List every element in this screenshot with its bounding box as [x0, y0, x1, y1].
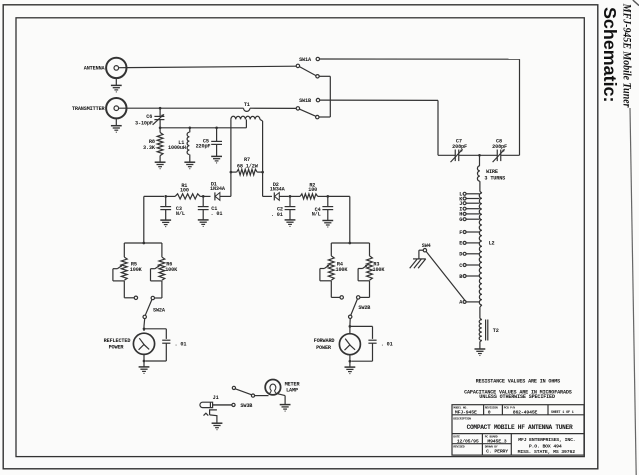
label R1 value — [180, 183, 189, 193]
svg-text:SW2B: SW2B — [358, 305, 370, 311]
switch SW1A top throw contact — [316, 57, 319, 60]
svg-text:REVISION: REVISION — [485, 406, 498, 409]
switch SW2A pivot — [143, 315, 146, 318]
node reflected meter top — [143, 327, 146, 330]
capacitor C7 variable — [451, 149, 464, 162]
transformer T1 primary dip — [244, 108, 250, 111]
svg-text:3-10pF: 3-10pF — [135, 120, 153, 126]
svg-text:100K: 100K — [336, 267, 349, 273]
meter M FORWARD POWER — [339, 334, 360, 355]
switch SW3B jack contact — [232, 403, 235, 406]
label C6 value — [135, 114, 153, 126]
wire box to R6 — [161, 243, 163, 257]
svg-text:MISS. STATE, MS 39762: MISS. STATE, MS 39762 — [518, 449, 576, 455]
switch SW2B right contact — [357, 296, 360, 299]
title block header DESCRIPTION — [453, 417, 471, 420]
potentiometer R5 — [113, 257, 127, 281]
svg-text:M945E_3: M945E_3 — [487, 439, 506, 445]
ground under forward meter — [345, 367, 356, 374]
connector J1 sleeve lead — [204, 410, 217, 423]
label R8 value — [143, 139, 156, 151]
svg-text:100: 100 — [308, 187, 317, 193]
resistor R8 — [157, 128, 163, 162]
wire reflected cap bottom to meter — [146, 360, 167, 362]
title block value revision 0 — [488, 409, 491, 415]
wire SW1B throw to C7 side — [320, 100, 438, 155]
label J1 — [213, 395, 219, 401]
wire C8 to antenna switch line — [501, 59, 520, 155]
svg-text:UNLESS OTHERWISE SPECIFIED: UNLESS OTHERWISE SPECIFIED — [479, 394, 555, 400]
wire T1 primary to SW1B common — [250, 107, 296, 109]
wire forward meter to ground — [349, 355, 351, 367]
svg-text:FORWARD: FORWARD — [314, 338, 335, 344]
node C3 tap — [164, 195, 167, 198]
svg-text:L2: L2 — [489, 241, 495, 247]
sidebar heading Schematic: — [600, 7, 620, 102]
switch SW3B common contact — [251, 394, 254, 397]
capacitor C6 variable — [153, 108, 165, 128]
label C3 value — [176, 206, 185, 217]
svg-text:T1: T1 — [244, 102, 250, 108]
svg-text:SW3B: SW3B — [240, 403, 252, 409]
resistor R2 — [300, 194, 318, 199]
svg-text:68 1/2W: 68 1/2W — [237, 163, 259, 169]
svg-text:T2: T2 — [493, 328, 499, 334]
svg-text:0: 0 — [488, 409, 491, 415]
wire R5 to SW2A left contact — [124, 281, 134, 298]
svg-text:SW2A: SW2A — [153, 307, 166, 313]
svg-text:REVISED: REVISED — [453, 445, 465, 448]
wire C3 to R1 — [166, 195, 175, 197]
label SW1A — [299, 57, 312, 63]
svg-text:C. PERRY: C. PERRY — [486, 449, 508, 455]
label FORWARD POWER — [314, 338, 335, 351]
label R7 value — [237, 157, 259, 169]
note capacitance values — [464, 389, 572, 400]
title block header REVISED — [453, 445, 465, 448]
svg-text:N/L: N/L — [312, 212, 321, 218]
svg-text:F: F — [459, 230, 462, 236]
svg-text:POWER: POWER — [316, 345, 332, 351]
potentiometer R4 — [320, 256, 334, 281]
ground under C5 — [211, 156, 222, 163]
wire box to R5 — [123, 243, 125, 257]
capacitor C4 — [322, 196, 333, 220]
label reflected meter cap value — [175, 341, 187, 347]
connector J ANTENNA — [84, 58, 127, 78]
wire C7 to C8 — [459, 154, 497, 156]
svg-text:100K: 100K — [165, 267, 178, 273]
lamp METER LAMP — [265, 380, 280, 395]
switch SW1A throw to crossover — [316, 75, 319, 78]
capacitor C5 — [211, 128, 222, 156]
note resistance values — [476, 378, 560, 384]
svg-text:862-4945E: 862-4945E — [513, 409, 538, 415]
wire R1 to C1 node — [200, 195, 202, 197]
svg-text:DESCRIPTION: DESCRIPTION — [453, 417, 471, 420]
svg-text:POWER: POWER — [109, 345, 125, 351]
resistor R1 — [175, 194, 200, 199]
meter M REFLECTED POWER — [133, 333, 154, 354]
svg-text:C6: C6 — [146, 114, 152, 120]
title block header PCB P/N — [504, 405, 516, 409]
title block value MFJ-945E — [455, 409, 477, 415]
node forward meter bottom — [349, 360, 352, 363]
switch SW1B arm — [299, 109, 316, 116]
switch SW2B left contact — [340, 296, 343, 299]
wire R2 to C4 node — [318, 195, 327, 197]
transformer T2 core — [486, 320, 488, 341]
svg-text:Schematic:: Schematic: — [600, 7, 620, 102]
ground under C1 — [198, 220, 209, 227]
label L1 value — [168, 140, 186, 151]
wire to forward meter cap — [350, 326, 373, 339]
switch SW4 arm to tap A — [426, 251, 466, 301]
ground under C2 — [285, 220, 296, 227]
svg-text:PC BOARD: PC BOARD — [485, 435, 498, 438]
label SW2B — [358, 305, 370, 311]
potentiometer R6 — [151, 257, 165, 281]
svg-text:COMPACT MOBILE HF ANTENNA TUNE: COMPACT MOBILE HF ANTENNA TUNER — [467, 424, 573, 431]
title block description text — [467, 424, 573, 431]
svg-text:3.3K: 3.3K — [143, 145, 156, 151]
ground under C4 — [322, 221, 333, 228]
title block value M945E_3 — [487, 439, 506, 445]
label C2 value — [271, 207, 283, 218]
title block table — [452, 405, 584, 455]
svg-text:REFLECTED: REFLECTED — [104, 338, 131, 344]
switch SW1A arm — [299, 67, 316, 76]
capacitor .01 across forward meter — [368, 340, 376, 361]
svg-text:SHEET 1 OF 1: SHEET 1 OF 1 — [551, 411, 574, 415]
capacitor C1 — [198, 196, 209, 219]
svg-text:ANTENNA: ANTENNA — [84, 66, 106, 72]
svg-text:. 01: . 01 — [381, 342, 393, 348]
wire box to R4 — [330, 243, 332, 256]
label C1 value — [211, 206, 223, 217]
ground under T2 — [475, 349, 486, 356]
svg-text:. 01: . 01 — [271, 212, 283, 218]
switch SW4 pivot — [422, 243, 431, 252]
node forward meter top — [349, 325, 352, 328]
node R8 top — [159, 126, 162, 129]
wire bridge row left corner — [144, 195, 164, 197]
svg-text:100K: 100K — [130, 267, 143, 273]
node reflected meter bottom — [143, 360, 146, 363]
switch SW3B open throw contact — [232, 386, 235, 389]
title block header DRAWN BY — [485, 445, 498, 448]
svg-text:1000uH: 1000uH — [168, 145, 186, 151]
label C4 value — [312, 207, 321, 218]
transformer T2 winding — [479, 318, 482, 341]
label R5 value — [130, 261, 143, 273]
svg-text:1N34A: 1N34A — [270, 187, 286, 193]
node C2 tap — [289, 195, 292, 198]
wire meter lamp to ground — [278, 394, 285, 405]
svg-text:B: B — [459, 274, 462, 280]
node C6 tap on transmitter line — [159, 107, 162, 110]
wire R3 to SW2B right contact — [360, 281, 370, 298]
svg-text:208pF: 208pF — [492, 144, 507, 150]
wire transmitter to T1 primary — [119, 107, 244, 109]
svg-text:DRAWN BY: DRAWN BY — [485, 445, 498, 448]
ground under L1 — [184, 162, 195, 169]
wire SW2A to reflected meter — [143, 319, 146, 331]
switch SW2A arm — [145, 300, 152, 316]
svg-text:PCB P/N: PCB P/N — [504, 405, 516, 409]
title block company MISS. STATE, MS 39762 — [518, 449, 576, 455]
wire forward box top — [331, 242, 369, 244]
wire T2 to ground — [479, 342, 481, 349]
label WIRE 3 TURNS — [484, 169, 505, 181]
wire T1 secondary left end down — [230, 119, 232, 196]
node reflected box top — [142, 242, 145, 245]
switch SW1B throw to crossover — [316, 115, 319, 118]
resistor R7 — [230, 169, 264, 175]
wire C1 node to D1 — [203, 195, 210, 197]
title block value C. PERRY — [486, 449, 508, 455]
node L1 top — [188, 126, 191, 129]
wire to reflected meter cap — [144, 329, 166, 339]
ground under meter lamp — [280, 405, 291, 412]
ground under transmitter connector — [111, 118, 122, 132]
title block header DATE — [453, 435, 460, 438]
capacitor C3 — [160, 196, 171, 220]
svg-text:C: C — [459, 263, 462, 269]
svg-text:12/05/95: 12/05/95 — [457, 439, 479, 445]
wire crossover SW1A-SW1B — [319, 76, 330, 117]
capacitor .01 across reflected meter — [162, 340, 170, 361]
chassis ground at SW4 — [410, 250, 426, 268]
svg-text:. 01: . 01 — [211, 211, 223, 217]
svg-text:SW4: SW4 — [422, 243, 431, 249]
label D1 value — [210, 181, 226, 192]
inductor L2 tap contacts A-L — [459, 192, 479, 306]
connector J TRANSMITTER — [72, 98, 127, 118]
label METER LAMP — [285, 381, 301, 393]
wire R6 to SW2A right contact — [155, 281, 162, 298]
wire T1 center tap to comp node row — [160, 119, 246, 127]
label T2 — [493, 328, 499, 334]
label SW3B — [240, 403, 252, 409]
label R4 value — [336, 262, 349, 274]
diode D2 1N34A — [274, 192, 288, 200]
label L2 — [489, 241, 495, 247]
switch SW1A common contact — [296, 64, 299, 67]
connector J1 power jack — [200, 402, 232, 407]
node C1 tap — [202, 195, 205, 198]
node C4 tap — [326, 195, 329, 198]
label forward meter cap value — [381, 342, 393, 348]
svg-text:E: E — [459, 241, 462, 247]
wire R4 to SW2B left contact — [331, 281, 340, 298]
title block value SHEET 1 OF 1 — [551, 411, 574, 415]
wire antenna to SW1A common — [119, 66, 297, 68]
svg-text:R7: R7 — [244, 157, 250, 163]
svg-text:J1: J1 — [213, 395, 219, 401]
switch SW2A right contact — [151, 296, 154, 299]
svg-text:TRANSMITTER: TRANSMITTER — [72, 106, 106, 112]
label R2 value — [308, 182, 317, 192]
svg-text:LAMP: LAMP — [286, 387, 298, 393]
title block header MODEL NO. — [453, 406, 468, 409]
switch SW2A left contact — [134, 296, 137, 299]
transformer T1 secondary winding — [231, 116, 260, 119]
switch SW2B pivot — [349, 315, 352, 318]
potentiometer R3 — [358, 256, 372, 281]
svg-text:1N34A: 1N34A — [210, 186, 226, 192]
svg-text:P.O. BOX 494: P.O. BOX 494 — [529, 443, 562, 449]
wire SW1A throw to C8 side — [320, 58, 520, 60]
wire box to R3 — [369, 243, 371, 256]
sidebar heading MFJ-945E Mobile Tuner — [620, 3, 633, 108]
label REFLECTED POWER — [104, 338, 131, 351]
label C5 value — [196, 139, 211, 150]
node antenna coil tap — [478, 154, 481, 157]
label T1 — [244, 102, 250, 108]
book page edge line — [630, 0, 639, 475]
svg-text:SW1B: SW1B — [299, 98, 311, 104]
title block header PC BOARD — [485, 435, 498, 438]
svg-text:DATE: DATE — [453, 435, 460, 438]
svg-text:SW1A: SW1A — [299, 57, 312, 63]
wire bridge left to reflected box — [143, 196, 145, 243]
svg-text:WIRE: WIRE — [486, 169, 498, 175]
label C8 value — [492, 138, 507, 150]
label R3 value — [373, 262, 386, 274]
ground under C3 — [160, 220, 171, 227]
title block company MFJ ENTERPRISES, INC. — [518, 437, 575, 443]
label SW2A — [153, 307, 166, 313]
switch SW1B common contact — [296, 107, 299, 110]
svg-text:MODEL NO.: MODEL NO. — [453, 406, 468, 409]
svg-text:MFJ-945E: MFJ-945E — [455, 409, 477, 415]
inductor L1 — [187, 128, 190, 162]
ground under J1 — [212, 423, 223, 430]
title block value 862-4945E — [513, 409, 538, 415]
svg-text:D: D — [459, 252, 462, 258]
wire reflected box top — [124, 242, 162, 244]
svg-text:RESISTANCE VALUES ARE IN OHMS: RESISTANCE VALUES ARE IN OHMS — [476, 378, 560, 384]
title block company P.O. BOX 494 — [529, 443, 562, 449]
svg-text:208pF: 208pF — [452, 144, 467, 150]
svg-text:220pF: 220pF — [196, 144, 211, 150]
wire to C7 left plate — [438, 154, 455, 156]
wire SW2B to forward meter — [349, 319, 351, 334]
svg-text:G: G — [459, 217, 462, 223]
svg-text:MFJ ENTERPRISES, INC.: MFJ ENTERPRISES, INC. — [518, 437, 575, 443]
switch SW1B top throw contact — [316, 98, 319, 101]
switch SW3B arm — [235, 389, 251, 395]
label D2 value — [270, 182, 286, 192]
ground under antenna connector — [111, 78, 122, 92]
svg-text:. 01: . 01 — [175, 341, 187, 347]
wire T1 right end to D2 — [263, 195, 272, 197]
wire C2 node to R2 — [290, 195, 300, 197]
wire reflected meter to ground — [143, 354, 145, 366]
ground under reflected meter — [139, 367, 150, 374]
svg-text:100: 100 — [180, 187, 189, 193]
svg-text:100K: 100K — [373, 267, 386, 273]
title block value date 12/05/95 — [457, 439, 479, 445]
label SW1B — [299, 98, 311, 104]
label R6 value — [165, 261, 178, 273]
svg-text:N/L: N/L — [176, 211, 185, 217]
title block header REVISION — [485, 406, 498, 409]
inductor wire 3 turns — [477, 155, 479, 191]
wire T1 secondary right end down — [260, 119, 263, 196]
diode D1 1N34A — [215, 192, 231, 200]
capacitor C2 — [285, 196, 296, 219]
wire C4 node to forward box — [328, 196, 350, 243]
ground under R8 — [155, 162, 166, 169]
switch SW2B arm — [351, 299, 358, 315]
node C5 top — [215, 126, 218, 129]
capacitor C8 variable — [493, 149, 505, 162]
svg-text:MFJ-945E Mobile Tuner: MFJ-945E Mobile Tuner — [620, 3, 633, 108]
label C7 value — [452, 138, 467, 150]
wire SW3B to meter lamp — [255, 395, 269, 397]
svg-text:3 TURNS: 3 TURNS — [484, 176, 505, 182]
wire forward cap bottom to meter — [351, 360, 372, 362]
inductor L2 — [479, 192, 482, 319]
node forward box top — [348, 242, 351, 245]
